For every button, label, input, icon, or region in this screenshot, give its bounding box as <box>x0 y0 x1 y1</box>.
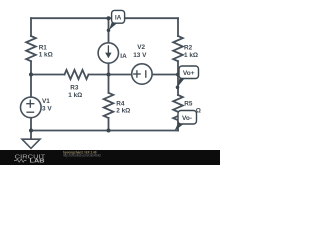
svg-text:V2: V2 <box>137 44 145 51</box>
svg-text:LAB: LAB <box>30 158 46 164</box>
svg-text:R4: R4 <box>116 100 125 107</box>
svg-text:3 V: 3 V <box>42 106 52 113</box>
svg-text:R5: R5 <box>184 101 193 108</box>
svg-text:R1: R1 <box>39 44 48 51</box>
svg-text:IA: IA <box>115 15 122 22</box>
svg-text:1 kΩ: 1 kΩ <box>184 52 198 59</box>
svg-text:Vo-: Vo- <box>182 115 192 122</box>
svg-text:Vo+: Vo+ <box>183 70 195 77</box>
svg-text:R2: R2 <box>184 45 193 52</box>
svg-text:2 kΩ: 2 kΩ <box>116 108 130 115</box>
svg-text:1 kΩ: 1 kΩ <box>68 92 82 99</box>
svg-text:13 V: 13 V <box>133 52 147 59</box>
svg-text:IA: IA <box>120 53 127 60</box>
svg-text:http://circuitlab.com/c/ab45rk: http://circuitlab.com/c/ab45rk2 <box>63 154 101 158</box>
svg-text:V1: V1 <box>42 98 50 105</box>
svg-text:1 kΩ: 1 kΩ <box>39 52 53 59</box>
svg-text:R3: R3 <box>70 85 79 92</box>
